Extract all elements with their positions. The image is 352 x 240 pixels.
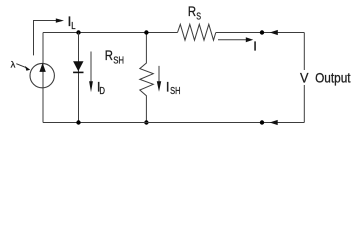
resistor R_SH (vertical zigzag) [140, 33, 154, 123]
svg-text:R: R [105, 47, 113, 63]
svg-text:λ: λ [11, 59, 16, 69]
label I_SH [166, 78, 181, 97]
current direction arrowhead on bottom wire (pointing left) [270, 120, 278, 125]
svg-text:L: L [71, 20, 75, 32]
label V Output [300, 69, 351, 85]
lambda arrow [16, 64, 30, 71]
wire: top rail right segment [216, 32, 304, 34]
label I_D [97, 79, 105, 98]
svg-text:D: D [99, 85, 105, 97]
wire: bottom rail [43, 122, 304, 124]
svg-text:V: V [300, 69, 309, 85]
annotation arrow I_SH [157, 66, 161, 92]
terminal dot: bottom output node [260, 120, 264, 124]
label I (output current) [253, 39, 257, 54]
label I_L [68, 13, 76, 32]
wire: left branch vertical (current source branch) [42, 33, 44, 123]
svg-text:S: S [196, 10, 201, 22]
diode D1 (cathode down) [73, 61, 83, 72]
label R_S [188, 3, 201, 23]
resistor R_S (horizontal zigzag) [178, 24, 216, 40]
current direction arrowhead on top wire (pointing left) [270, 30, 278, 35]
terminal dot: top output node [260, 30, 264, 34]
svg-text:R: R [188, 3, 196, 19]
junction dot: diode branch top [76, 30, 80, 34]
svg-text:I: I [253, 39, 257, 54]
annotation arrow I (output current) [218, 37, 253, 42]
wire: right vertical lower segment [303, 85, 305, 123]
svg-text:I: I [166, 78, 170, 94]
lambda light input label [11, 59, 16, 69]
svg-text:SH: SH [170, 85, 180, 97]
label R_SH [105, 47, 124, 67]
wire: right vertical upper segment [303, 33, 305, 71]
svg-text:SH: SH [113, 55, 124, 67]
current source CS1 (circle with up arrow) [30, 63, 54, 88]
junction dot: R_SH top [144, 30, 148, 34]
wire: diode branch vertical [78, 33, 80, 123]
wire: top rail left segment [43, 32, 178, 34]
junction dot: diode branch bottom [76, 120, 80, 124]
junction dot: R_SH bottom [144, 120, 148, 124]
annotation arrow I_D [89, 52, 93, 93]
annotation arrow I_L [34, 18, 65, 55]
svg-text:Output: Output [315, 70, 351, 86]
